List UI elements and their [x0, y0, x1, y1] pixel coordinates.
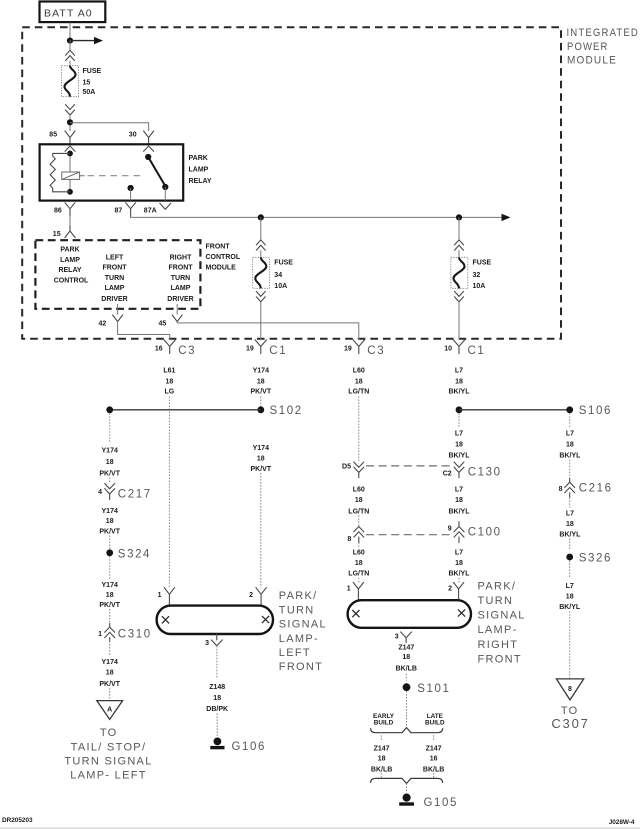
svg-text:3: 3 — [205, 640, 209, 647]
wire to ground G105 — [406, 784, 408, 793]
wire to off-page triangle A — [109, 688, 111, 700]
wire label L60 18 LG/TN 3 — [348, 550, 369, 578]
build merge brace (bottom) — [371, 778, 443, 783]
right lamp pin 3 connector — [395, 632, 412, 643]
svg-text:18: 18 — [455, 442, 463, 449]
svg-text:L7: L7 — [566, 583, 574, 590]
svg-text:LG/TN: LG/TN — [348, 389, 369, 396]
node: coil top dot — [67, 151, 73, 157]
node: splice S326 — [566, 552, 612, 564]
svg-text:Y174: Y174 — [102, 659, 118, 666]
svg-text:30: 30 — [129, 131, 137, 138]
bulb element X left — [352, 610, 359, 617]
relay coil wire — [69, 151, 71, 192]
wire — [109, 536, 111, 550]
svg-text:C217: C217 — [118, 488, 152, 500]
svg-text:C130: C130 — [468, 467, 502, 479]
wire Y174 from C1 to splice S102 — [260, 397, 262, 407]
wire label Y174 18 PK/VT left 2 — [99, 508, 120, 535]
svg-text:Z147: Z147 — [426, 746, 442, 753]
bottom edge shading — [0, 827, 640, 829]
park/turn signal lamp right front (bulb outline) — [348, 600, 471, 628]
svg-text:L7: L7 — [566, 511, 574, 518]
wire to relay junction — [69, 115, 71, 131]
wire label Z147 16 BK/LB late — [423, 746, 444, 774]
wire — [109, 609, 111, 624]
node: splice S324 — [106, 549, 151, 561]
fuse F32 (FUSE 32 10A) — [451, 257, 492, 290]
ground G106 — [210, 738, 266, 753]
svg-text:LG/TN: LG/TN — [348, 571, 369, 578]
svg-text:Y174: Y174 — [102, 582, 118, 589]
wire label Z148 18 DB/PK — [206, 684, 228, 713]
svg-text:D5: D5 — [342, 463, 351, 470]
wire to C1 (10) — [458, 302, 460, 340]
wire — [569, 460, 571, 479]
pin 15 label — [53, 231, 61, 238]
fuse F15 (FUSE 15 50A) — [62, 66, 102, 97]
svg-text:BUILD: BUILD — [425, 720, 445, 727]
svg-text:50A: 50A — [83, 89, 96, 96]
integrated power module dashed box — [22, 27, 561, 338]
svg-text:S326: S326 — [579, 552, 612, 564]
wire label Y174 18 PK/VT left — [99, 448, 120, 478]
svg-text:Y174: Y174 — [102, 448, 118, 455]
wire to C1 — [260, 302, 262, 340]
svg-text:PK/VT: PK/VT — [99, 681, 120, 688]
svg-text:15: 15 — [83, 80, 91, 87]
relay pin 87A stub — [164, 187, 166, 201]
wire — [359, 543, 459, 583]
wire junction to relay pin 30 — [70, 123, 149, 131]
svg-text:LAMP: LAMP — [189, 167, 209, 174]
svg-text:16: 16 — [155, 345, 163, 352]
relay actuation dashed link — [88, 175, 144, 177]
label: TO TAIL/ STOP/ TURN SIGNAL LAMP- LEFT — [64, 727, 152, 782]
node: junction dot to fuse 34 — [258, 214, 264, 220]
svg-text:15: 15 — [53, 231, 61, 238]
wire tick — [405, 674, 407, 681]
connector C1 pin 10 at IPM output — [444, 340, 485, 357]
early build wire tick — [380, 735, 382, 741]
svg-text:18: 18 — [566, 521, 574, 528]
svg-text:RELAY: RELAY — [58, 267, 81, 274]
off-page reference triangle 8 — [556, 679, 583, 700]
pin 87A label — [144, 208, 157, 215]
late build wire tick 2 — [433, 773, 435, 778]
wire from BATT A0 down — [69, 22, 71, 40]
svg-text:TURN: TURN — [478, 595, 514, 607]
svg-text:18: 18 — [378, 756, 386, 763]
wire — [569, 560, 571, 578]
svg-text:SIGNAL: SIGNAL — [478, 610, 526, 622]
C100 dashed connector link — [366, 534, 452, 536]
svg-text:18: 18 — [257, 455, 265, 462]
wire label L7 18 BK/YL upper — [449, 431, 471, 460]
wire L60 from C3 down to C130 — [358, 397, 360, 462]
svg-text:C3: C3 — [178, 345, 196, 357]
svg-text:C2: C2 — [443, 470, 452, 477]
connector C130 pin C2 — [443, 462, 502, 479]
right lamp pin 1 connector — [347, 582, 364, 600]
svg-text:18: 18 — [355, 560, 363, 567]
svg-text:18: 18 — [213, 695, 221, 702]
svg-text:87A: 87A — [144, 208, 157, 215]
svg-text:C1: C1 — [468, 345, 486, 357]
wire label L7 18 BK/YL — [449, 367, 471, 395]
bulb element X right — [262, 616, 269, 623]
svg-text:C100: C100 — [468, 526, 502, 538]
svg-text:PK/VT: PK/VT — [250, 389, 271, 396]
svg-text:8: 8 — [568, 686, 572, 693]
svg-text:S324: S324 — [118, 549, 151, 561]
wire fuse 32 drop — [458, 217, 460, 239]
wire S106 right branch down — [569, 413, 571, 428]
svg-text:FUSE: FUSE — [83, 68, 102, 75]
node: junction dot to fuse 32 — [456, 214, 462, 220]
svg-text:LEFT: LEFT — [279, 647, 311, 659]
svg-text:34: 34 — [274, 272, 282, 279]
svg-text:85: 85 — [49, 131, 57, 138]
label: PARK/ TURN SIGNAL LAMP- LEFT FRONT — [279, 590, 327, 673]
svg-text:L61: L61 — [163, 367, 175, 374]
wire pin 3 to ground — [216, 646, 218, 677]
node: junction dot above relay — [67, 119, 73, 125]
svg-text:TAIL/ STOP/: TAIL/ STOP/ — [71, 741, 147, 753]
wire label L7 18 BK/YL mid 2 — [449, 550, 471, 578]
relay coil element box — [62, 172, 85, 179]
svg-text:32: 32 — [473, 272, 481, 279]
connector C3 pin 16 at IPM output — [155, 340, 196, 357]
relay switch blade — [148, 157, 165, 186]
svg-text:S106: S106 — [579, 405, 612, 417]
wire — [458, 250, 460, 257]
svg-text:BK/YL: BK/YL — [449, 571, 471, 578]
pin 42 connector chevron — [113, 315, 123, 322]
wire L61 long run to lamp pin 1 — [168, 397, 170, 588]
svg-text:TURN: TURN — [171, 275, 190, 282]
svg-text:18: 18 — [106, 592, 114, 599]
svg-text:CONTROL: CONTROL — [54, 278, 89, 285]
early build wire tick 2 — [380, 773, 382, 778]
wire label L7 18 BK/YL right 2 — [559, 511, 581, 539]
node: coil bottom dot — [67, 189, 73, 195]
label: FRONT CONTROL MODULE — [206, 244, 241, 272]
C130 dashed connector link — [366, 465, 452, 467]
svg-text:18: 18 — [355, 497, 363, 504]
pin 30 label — [129, 131, 137, 138]
wire label Y174 18 PK/VT left 3 — [99, 582, 120, 609]
svg-text:L60: L60 — [353, 550, 365, 557]
svg-text:BATT A0: BATT A0 — [44, 7, 93, 19]
svg-text:3: 3 — [395, 634, 399, 641]
relay coil resistor zigzag — [50, 153, 70, 191]
svg-text:INTEGRATED: INTEGRATED — [567, 27, 640, 39]
svg-text:C3: C3 — [367, 345, 385, 357]
label: INTEGRATED POWER MODULE — [567, 27, 640, 67]
svg-text:G105: G105 — [424, 797, 459, 809]
svg-text:C216: C216 — [579, 482, 613, 494]
svg-text:18: 18 — [455, 560, 463, 567]
connector chevrons below fuse 15 — [66, 105, 75, 115]
wire label L61 18 LG — [163, 367, 175, 395]
wire label L60 18 LG/TN — [348, 367, 369, 395]
connector C130 pin D5 — [342, 462, 364, 478]
svg-text:42: 42 — [99, 320, 107, 327]
svg-text:L7: L7 — [455, 487, 463, 494]
park/turn signal lamp left front (bulb outline) — [157, 606, 273, 634]
pin 15 connector chevron at FCM — [65, 226, 75, 237]
wire label L7 18 BK/YL right 3 — [559, 583, 581, 611]
connector chevrons above fuse 15 — [66, 50, 75, 60]
svg-text:TO: TO — [100, 727, 118, 739]
svg-text:S101: S101 — [417, 683, 450, 695]
pin 87 label — [115, 208, 123, 215]
connector C217 pin 4 — [98, 484, 152, 501]
wire label L60 18 LG/TN 2 — [348, 487, 369, 516]
svg-text:PK/VT: PK/VT — [250, 466, 271, 473]
svg-text:TURN SIGNAL: TURN SIGNAL — [64, 756, 152, 768]
svg-text:PARK/: PARK/ — [478, 580, 517, 592]
svg-text:18: 18 — [106, 670, 114, 677]
wire pin86 down to FCM pin 15 — [69, 216, 71, 226]
svg-text:FUSE: FUSE — [274, 260, 293, 267]
wire label Y174 18 PK/VT left 4 — [99, 659, 120, 688]
svg-text:10: 10 — [444, 345, 452, 352]
node: splice S106 — [456, 405, 612, 417]
svg-text:BK/YL: BK/YL — [559, 532, 581, 539]
pin 45 connector chevron — [172, 315, 182, 322]
wire Y174 down to lamp pin 2 — [260, 473, 262, 588]
svg-text:18: 18 — [106, 459, 114, 466]
svg-text:TURN: TURN — [279, 604, 315, 616]
svg-text:BK/YL: BK/YL — [449, 389, 471, 396]
node: battery junction dot — [67, 38, 73, 44]
pin 30 connector chevron — [144, 131, 154, 144]
svg-text:MODULE: MODULE — [567, 54, 617, 66]
label: PARK LAMP RELAY — [189, 155, 212, 185]
pin 42 label — [99, 320, 107, 327]
pin 87 connector chevron below relay — [126, 203, 136, 217]
svg-text:S102: S102 — [270, 405, 303, 417]
label: LEFT FRONT TURN LAMP DRIVER — [101, 255, 127, 303]
label: PARK LAMP RELAY CONTROL — [54, 247, 89, 285]
svg-text:18: 18 — [455, 378, 463, 385]
svg-text:LAMP- LEFT: LAMP- LEFT — [70, 770, 147, 782]
svg-text:DRIVER: DRIVER — [101, 296, 127, 303]
svg-text:RIGHT: RIGHT — [478, 639, 519, 651]
svg-text:8: 8 — [347, 536, 351, 543]
connector chevrons below fuse 34 — [256, 291, 265, 301]
svg-text:L60: L60 — [353, 367, 365, 374]
label: PARK/ TURN SIGNAL LAMP- RIGHT FRONT — [478, 580, 526, 665]
label: RIGHT FRONT TURN LAMP DRIVER — [167, 255, 193, 303]
svg-text:1: 1 — [98, 631, 102, 638]
svg-text:PK/VT: PK/VT — [99, 471, 120, 478]
relay pin 85 inner chevron — [65, 146, 75, 151]
svg-text:LAMP: LAMP — [171, 285, 191, 292]
relay pin 87 dot — [128, 185, 134, 191]
svg-text:16: 16 — [430, 756, 438, 763]
label: TO C307 — [551, 705, 589, 731]
connector C3 pin 19 at IPM output — [344, 340, 385, 357]
bulb element X left — [162, 616, 169, 623]
pin 86 connector chevron below relay — [65, 203, 75, 217]
svg-text:J028W-4: J028W-4 — [609, 819, 635, 826]
svg-text:PARK: PARK — [60, 247, 79, 254]
battery feed box BATT A0 — [40, 2, 106, 23]
wire pin 45 to connector C3 (19) — [177, 322, 359, 340]
node: splice S101 — [403, 683, 451, 695]
svg-text:Y174: Y174 — [102, 508, 118, 515]
off-page reference triangle A — [97, 701, 123, 720]
relay pin 87 stub — [130, 188, 132, 201]
build split brace (top) — [371, 728, 443, 733]
svg-text:10A: 10A — [274, 283, 287, 290]
wire S101 down to build split — [406, 691, 408, 727]
svg-text:DRIVER: DRIVER — [167, 296, 193, 303]
bulb element X right — [458, 609, 465, 616]
wire L7 below S106 to C130 — [458, 413, 460, 428]
svg-text:18: 18 — [566, 594, 574, 601]
wire label Z147 18 BK/LB early — [371, 746, 392, 774]
svg-text:L7: L7 — [566, 431, 574, 438]
svg-text:C310: C310 — [118, 628, 152, 640]
FCM pin 42 stub — [117, 304, 119, 315]
left lamp pin 2 connector — [249, 588, 266, 606]
wire label Y174 18 PK/VT mid — [250, 445, 271, 473]
pin 86 label — [54, 208, 62, 215]
svg-text:LEFT: LEFT — [106, 255, 124, 262]
svg-text:Z147: Z147 — [398, 645, 414, 652]
svg-text:19: 19 — [246, 345, 254, 352]
svg-text:18: 18 — [257, 378, 265, 385]
footer: DR205203 — [2, 817, 33, 824]
svg-text:18: 18 — [566, 442, 574, 449]
svg-text:BK/YL: BK/YL — [449, 453, 471, 460]
svg-text:2: 2 — [448, 585, 452, 592]
svg-text:LG/TN: LG/TN — [348, 508, 369, 515]
svg-text:BUILD: BUILD — [374, 720, 394, 727]
svg-text:Y174: Y174 — [253, 367, 269, 374]
label: EARLY BUILD — [373, 713, 395, 727]
wire pin 42 to connector C3 — [118, 322, 170, 340]
wire — [69, 61, 71, 66]
pin 45 label — [159, 320, 167, 327]
FCM pin 45 stub — [176, 304, 178, 315]
relay pin 30 inner chevron — [144, 146, 154, 151]
svg-text:FRONT: FRONT — [279, 661, 323, 673]
svg-text:G106: G106 — [232, 741, 267, 753]
wire label Z147 18 BK/LB — [396, 645, 417, 673]
left lamp pin 3 connector — [205, 634, 222, 647]
wire — [109, 641, 111, 656]
svg-text:LAMP-: LAMP- — [279, 633, 319, 645]
connector C100 pin 9 — [448, 522, 502, 543]
svg-text:Y174: Y174 — [253, 445, 269, 452]
wire — [569, 497, 571, 549]
front control module dashed box — [35, 240, 200, 309]
svg-text:FRONT: FRONT — [102, 265, 127, 272]
svg-text:L7: L7 — [455, 550, 463, 557]
label: LATE BUILD — [425, 713, 445, 727]
svg-text:FRONT: FRONT — [478, 653, 522, 665]
svg-text:PK/VT: PK/VT — [99, 602, 120, 609]
svg-text:PARK/: PARK/ — [279, 590, 318, 602]
svg-text:18: 18 — [106, 518, 114, 525]
connector chevrons above fuse 34 — [256, 240, 265, 250]
park lamp relay box — [40, 144, 184, 200]
svg-text:RELAY: RELAY — [189, 178, 212, 185]
svg-text:1: 1 — [347, 585, 351, 592]
svg-text:45: 45 — [159, 320, 167, 327]
relay switch 87A dot — [162, 184, 168, 190]
svg-text:FRONT: FRONT — [206, 244, 231, 251]
svg-text:18: 18 — [355, 378, 363, 385]
svg-text:Z147: Z147 — [374, 746, 390, 753]
connector chevrons above fuse 32 — [455, 240, 464, 250]
left lamp pin 1 connector — [158, 588, 175, 606]
svg-text:4: 4 — [98, 489, 102, 496]
wire label L7 18 BK/YL right — [559, 431, 581, 460]
svg-text:BK/YL: BK/YL — [449, 508, 471, 515]
svg-text:8: 8 — [559, 486, 563, 493]
svg-text:RIGHT: RIGHT — [170, 255, 193, 262]
svg-text:L60: L60 — [353, 487, 365, 494]
svg-text:A: A — [107, 707, 112, 714]
svg-text:86: 86 — [54, 208, 62, 215]
svg-text:MODULE: MODULE — [206, 265, 237, 272]
svg-text:18: 18 — [402, 654, 410, 661]
wire to off-page triangle 8 — [569, 611, 571, 678]
footer: J028W-4 — [609, 819, 635, 826]
svg-text:LAMP: LAMP — [105, 285, 125, 292]
svg-text:FUSE: FUSE — [473, 260, 492, 267]
svg-text:18: 18 — [166, 378, 174, 385]
svg-text:10A: 10A — [473, 283, 486, 290]
svg-text:L7: L7 — [455, 431, 463, 438]
wire — [260, 250, 262, 257]
right lamp pin 2 connector — [448, 582, 464, 600]
connector chevrons below fuse 32 — [455, 291, 464, 301]
svg-text:9: 9 — [448, 525, 452, 532]
relay switch common dot — [145, 154, 151, 160]
svg-text:POWER: POWER — [567, 41, 609, 53]
wire — [358, 515, 360, 526]
svg-text:2: 2 — [249, 592, 253, 599]
svg-text:BK/YL: BK/YL — [559, 453, 581, 460]
svg-text:18: 18 — [455, 497, 463, 504]
node: splice S102 — [106, 405, 302, 417]
svg-text:LAMP-: LAMP- — [478, 624, 518, 636]
svg-text:L7: L7 — [455, 367, 463, 374]
pin 87A open chevron (not connected) — [160, 203, 171, 209]
wire label L7 18 BK/YL mid — [449, 487, 471, 516]
wire label Y174 18 PK/VT — [250, 367, 271, 395]
svg-text:BK/YL: BK/YL — [559, 604, 581, 611]
svg-text:BK/LB: BK/LB — [396, 665, 417, 672]
wire from relay pin 87 to fuses and arrow — [131, 214, 511, 221]
svg-text:FRONT: FRONT — [168, 265, 193, 272]
fuse F34 (FUSE 34 10A) — [253, 257, 294, 290]
svg-text:1: 1 — [158, 592, 162, 599]
pin 85 connector chevron — [65, 131, 75, 144]
svg-text:LG: LG — [165, 389, 175, 396]
svg-text:C307: C307 — [551, 716, 589, 731]
wire S102 left branch down — [109, 413, 111, 442]
svg-text:PARK: PARK — [189, 155, 208, 162]
wire — [109, 478, 111, 484]
